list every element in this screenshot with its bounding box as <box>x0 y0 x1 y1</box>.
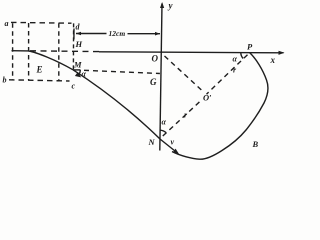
angle arc at N <box>160 130 166 133</box>
wire: vertical dashed line d-H-M <box>72 23 74 69</box>
trajectory M to N to v arrow <box>73 70 178 153</box>
svg-text:v: v <box>171 138 175 147</box>
wire: dashed radius O to O' <box>165 56 203 91</box>
svg-text:M: M <box>73 60 82 70</box>
svg-text:E: E <box>36 65 43 75</box>
wire: capacitor right edge dashed vertical <box>58 23 60 80</box>
svg-text:O: O <box>152 54 159 64</box>
svg-text:12cm: 12cm <box>109 29 126 38</box>
wire: top dashed plate line <box>11 21 72 24</box>
tick below d on measurement line <box>73 29 75 40</box>
svg-text:H: H <box>75 39 83 49</box>
wire: dashed horizontal M to G <box>84 70 160 73</box>
circle region B arc <box>172 53 268 160</box>
svg-text:P: P <box>247 42 253 52</box>
wire: dashed radius P to O' <box>207 55 248 94</box>
svg-text:c: c <box>72 82 76 91</box>
arrowhead on trajectory after M <box>75 72 81 77</box>
wire: capacitor left edge dashed vertical <box>28 23 30 80</box>
dimension 12cm double arrow <box>76 33 160 35</box>
svg-text:O′: O′ <box>203 93 212 103</box>
angle mark at M: horizontal segment + arc <box>73 69 80 71</box>
svg-text:α: α <box>162 118 167 127</box>
svg-text:d: d <box>76 23 81 32</box>
wire: bottom dashed plate line <box>9 80 70 81</box>
svg-text:r: r <box>184 111 188 120</box>
svg-text:x: x <box>270 55 276 65</box>
arrowhead v after N <box>173 149 179 154</box>
y-axis <box>160 4 162 151</box>
svg-text:a: a <box>5 19 9 28</box>
x-axis <box>99 52 284 53</box>
svg-text:r: r <box>233 66 237 75</box>
svg-text:y: y <box>168 1 174 11</box>
svg-text:G: G <box>150 77 157 87</box>
angle arc at P <box>241 53 243 59</box>
wire: left vertical dashed line a-b <box>12 23 14 80</box>
svg-text:N: N <box>148 137 156 147</box>
wire: dashed beam axis through H <box>30 50 99 53</box>
wire: solid beam entrance segment <box>12 50 29 52</box>
parabola in capacitor <box>29 51 73 70</box>
svg-text:α: α <box>233 55 238 64</box>
svg-text:B: B <box>252 139 259 149</box>
svg-text:b: b <box>3 76 7 85</box>
wire: dashed radius N to O' <box>163 100 202 136</box>
